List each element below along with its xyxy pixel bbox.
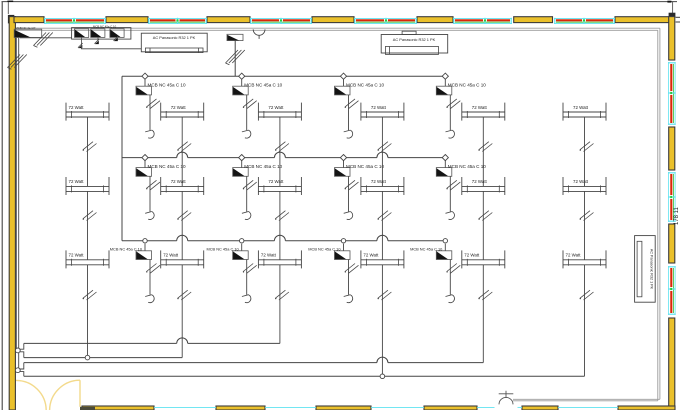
ceiling fan symbol (253, 29, 265, 39)
door leaf right (79, 380, 81, 407)
svg-text:MCB NC 45a C 10: MCB NC 45a C 10 (244, 83, 282, 88)
svg-text:MCB NC 45a C 10: MCB NC 45a C 10 (244, 164, 282, 169)
bottom wall segment 1 (82, 406, 154, 410)
wire lamp column 4 (378, 117, 392, 260)
svg-text:AC Panasonic R32 1 PK: AC Panasonic R32 1 PK (650, 249, 654, 290)
svg-text:72 Watt: 72 Watt (163, 253, 179, 258)
node U32 (240, 239, 244, 243)
svg-text:72 Watt: 72 Watt (464, 253, 480, 258)
bottom wall segment 2 (216, 406, 265, 410)
lamp L12 72 Watt (161, 103, 204, 121)
right wall segment 2 (669, 127, 675, 170)
top wall segment 4 (312, 17, 354, 23)
conductor marks feeder (226, 50, 245, 65)
right wall segment 1 (669, 17, 675, 60)
svg-text:MCB NC 45a C 10: MCB NC 45a C 10 (410, 247, 443, 252)
svg-text:72 Watt: 72 Watt (472, 179, 488, 184)
lamp L23 72 Watt (258, 177, 301, 195)
MCB U24 chain (436, 161, 460, 220)
inner wall line top (15, 27, 660, 29)
node U22 (239, 155, 245, 161)
wire group to AC1 (82, 46, 142, 49)
door swing arc right (50, 380, 80, 410)
svg-text:72 Watt: 72 Watt (261, 253, 277, 258)
svg-text:72 Watt: 72 Watt (268, 105, 284, 110)
node U21 (142, 155, 148, 161)
svg-text:AC Panasonic R32 1 PK: AC Panasonic R32 1 PK (153, 35, 196, 40)
MCB group box Q1-Q3 (72, 28, 131, 39)
top wall segment 7 (615, 17, 669, 23)
right wall segment 4 (669, 318, 675, 410)
bottom wall window 5 (518, 406, 523, 408)
sheet border left line (1, 2, 3, 410)
inner wall line right (657, 30, 659, 401)
sheet border top-left corner block (7, 1, 13, 2)
svg-text:MCB NC 4a 1 P: MCB NC 4a 1 P (16, 26, 36, 30)
wire lamp column 3 (275, 117, 289, 260)
sheet border top-right corner block (667, 1, 671, 3)
svg-text:72 Watt: 72 Watt (566, 253, 582, 258)
wire bus row1 (122, 75, 445, 77)
wire bus row2 (122, 152, 445, 158)
svg-text:MCB NC 45a C 10: MCB NC 45a C 10 (346, 164, 384, 169)
MCB U23 chain (335, 161, 359, 220)
wall top-right corner block (669, 13, 676, 18)
svg-text:72 Watt: 72 Watt (363, 253, 379, 258)
door swing bottom-center (499, 391, 514, 405)
MCB U12 chain (233, 79, 257, 138)
top wall segment 6 (514, 17, 553, 23)
wire bus A bottom (24, 338, 280, 344)
bottom wall segment 5 (522, 406, 558, 410)
lamp L36 72 Watt (563, 250, 606, 268)
bottom wall corner cap (80, 407, 95, 410)
wire jog circle2 to bus D (19, 372, 23, 377)
node U31 (143, 239, 147, 243)
MCB U31 chain (136, 244, 160, 303)
AC unit 3 right (635, 236, 656, 303)
wire bus D bottom (24, 375, 585, 377)
wire left riser bus (121, 76, 123, 241)
wire lamp col5 drop (482, 265, 484, 363)
wire feeder drop (234, 41, 236, 77)
node U33 (341, 239, 345, 243)
svg-text:MCB NC 45a C 10: MCB NC 45a C 10 (448, 164, 486, 169)
wire lamp column 6 (580, 117, 594, 260)
svg-text:72 Watt: 72 Watt (472, 105, 488, 110)
bottom wall segment 6 (618, 406, 675, 410)
node U34 (443, 239, 447, 243)
wire left wall drop 2 (18, 38, 20, 368)
wire jog circle1 to bus A (19, 343, 23, 349)
wire lamp column 5 (478, 117, 492, 260)
svg-text:72 Watt: 72 Watt (171, 179, 187, 184)
top wall window 5 (453, 18, 512, 24)
svg-text:72 Watt: 72 Watt (171, 105, 187, 110)
lamp L16 72 Watt (563, 103, 606, 121)
wire lamp column 2 (177, 117, 191, 260)
svg-text:178 11: 178 11 (674, 206, 680, 225)
lamp L25 72 Watt (462, 177, 505, 195)
node col4 bus D (380, 374, 385, 379)
node U14 (442, 73, 448, 79)
top wall window 1 (44, 18, 106, 24)
top wall window 4 (354, 18, 417, 24)
lamp L13 72 Watt (258, 103, 301, 121)
node col1 bus B (85, 355, 90, 360)
svg-text:72 Watt: 72 Watt (573, 179, 589, 184)
node U24 (442, 155, 448, 161)
left wall (9, 17, 15, 410)
svg-text:MCB NC 45a C 10: MCB NC 45a C 10 (148, 83, 186, 88)
AC unit 1 (141, 33, 207, 52)
svg-text:MCB NC 45a C 10: MCB NC 45a C 10 (148, 164, 186, 169)
right wall segment 3 (669, 224, 675, 263)
lamp L26 72 Watt (563, 177, 606, 195)
switch hook Q1 (78, 37, 83, 48)
svg-text:MCB NC 45a C 10: MCB NC 45a C 10 (308, 247, 341, 252)
bottom wall window 4 (477, 406, 495, 408)
MCB U21 chain (136, 161, 160, 220)
wire bus B bottom (24, 357, 182, 359)
svg-text:MCB NC 45a C 10: MCB NC 45a C 10 (448, 83, 486, 88)
inner wall line bottom (513, 398, 660, 400)
svg-text:72 Watt: 72 Watt (69, 179, 85, 184)
top wall segment 1 (14, 17, 44, 23)
top wall segment 2 (106, 17, 148, 23)
node U23 (340, 155, 346, 161)
bottom wall window 3 (371, 406, 424, 408)
switch hook Q2 (95, 37, 100, 44)
node U12 (239, 73, 245, 79)
MCB U32 chain (233, 244, 257, 303)
wire bus row3 (122, 235, 445, 241)
MCB Q1 (75, 29, 86, 37)
MCB U13 chain (335, 79, 359, 138)
MCB Q0 at wall corner (14, 26, 42, 38)
svg-text:72 Watt: 72 Watt (573, 105, 589, 110)
wire jog circle1 to bus B (19, 352, 23, 358)
wire lamp col3 drop (279, 265, 281, 344)
lamp L11 72 Watt (66, 103, 109, 121)
svg-text:MCB NC 45a C 10: MCB NC 45a C 10 (346, 83, 384, 88)
wire lamp col1 drop (87, 265, 89, 355)
node U11 (142, 73, 148, 79)
lamp L15 72 Watt (462, 103, 505, 121)
wire lamp col6 drop (584, 265, 586, 377)
lamp L31 72 Watt (66, 250, 109, 268)
svg-text:MCB NC 45a C 10: MCB NC 45a C 10 (93, 24, 117, 28)
wall corner tick right (676, 16, 680, 18)
bottom wall segment 3 (316, 406, 371, 410)
right wall window 1 (668, 62, 676, 125)
wire MCB Q0 output (20, 37, 72, 39)
svg-text:AC Panasonic R32 1 PK: AC Panasonic R32 1 PK (393, 37, 436, 42)
wall top-left corner block (8, 15, 14, 24)
sheet border top line (2, 1, 678, 3)
MCB Q2 (91, 29, 102, 37)
lamp L35 72 Watt (462, 250, 505, 268)
svg-text:72 Watt: 72 Watt (69, 105, 85, 110)
wire lamp column 1 (83, 117, 97, 260)
svg-text:MCB NC 45a C 10: MCB NC 45a C 10 (110, 247, 143, 252)
MCB feeder top (227, 35, 239, 41)
conductor marks wall wires (8, 55, 27, 70)
wire lamp col2 drop (181, 265, 183, 358)
bottom wall window 2 (265, 406, 316, 408)
wire bus C bottom (24, 357, 484, 362)
node U13 (340, 73, 346, 79)
lamp L24 72 Watt (361, 177, 404, 195)
switch hook Q3 (114, 36, 119, 41)
svg-text:MCB NC 45a C 10: MCB NC 45a C 10 (206, 247, 239, 252)
top wall window 6 (554, 18, 615, 24)
svg-text:72 Watt: 72 Watt (371, 179, 387, 184)
MCB U22 chain (233, 161, 257, 220)
top wall segment 5 (417, 17, 453, 23)
wire lamp col4 drop (381, 265, 383, 374)
lamp L32 72 Watt (161, 250, 204, 268)
svg-text:72 Watt: 72 Watt (268, 179, 284, 184)
top wall segment 3 (207, 17, 250, 23)
wire jog circle2 to bus C (19, 363, 23, 369)
right wall window 3 (668, 266, 676, 315)
bottom wall window 6 (558, 406, 618, 408)
sheet border top-right stub (672, 2, 674, 16)
right wall window 2 (668, 172, 676, 222)
MCB Q3 (110, 29, 121, 37)
node feed circle 2 (15, 368, 20, 373)
bottom wall window 1 (154, 406, 216, 408)
MCB U11 chain (136, 79, 160, 138)
lamp L33 72 Watt (258, 250, 301, 268)
node feed circle 1 (15, 348, 20, 353)
door swing arc left (16, 380, 46, 410)
top wall window 2 (148, 18, 207, 24)
svg-text:72 Watt: 72 Watt (371, 105, 387, 110)
top wall window 3 (250, 18, 312, 24)
lamp L34 72 Watt (361, 250, 404, 268)
lamp L21 72 Watt (66, 177, 109, 195)
wire left wall drop 1 (15, 38, 17, 348)
lamp L14 72 Watt (361, 103, 404, 121)
MCB U33 chain (335, 244, 359, 303)
bottom wall segment 4 (424, 406, 477, 410)
lamp L22 72 Watt (161, 177, 204, 195)
MCB U14 chain (436, 79, 460, 138)
sheet border top-left stub (7, 2, 9, 14)
svg-text:72 Watt: 72 Watt (69, 253, 85, 258)
MCB U34 chain (436, 244, 460, 303)
AC unit 2 (381, 31, 448, 54)
conductor marks Q0 (34, 33, 53, 48)
